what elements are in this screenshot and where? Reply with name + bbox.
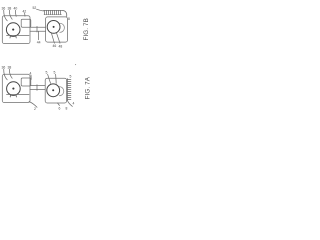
ref numeral 52 bbox=[33, 6, 44, 11]
left housing box 7B bbox=[2, 16, 30, 44]
roller circle 7A-right bbox=[47, 84, 60, 97]
svg-text:FIG. 7B: FIG. 7B bbox=[83, 18, 90, 40]
ribbed belt band (vertical) bbox=[67, 79, 72, 107]
stray speck bbox=[75, 64, 76, 65]
svg-text:4: 4 bbox=[73, 102, 75, 106]
right housing box 7B bbox=[46, 17, 68, 42]
svg-text:44: 44 bbox=[37, 41, 41, 45]
roller circle 7A-left bbox=[7, 82, 21, 96]
svg-text:8: 8 bbox=[68, 17, 70, 21]
shaft upper line bbox=[30, 26, 46, 28]
svg-text:48: 48 bbox=[59, 45, 63, 49]
ref numeral 50a bbox=[46, 71, 51, 84]
under-box leader swoosh bbox=[29, 102, 37, 112]
ref numeral 52a bbox=[54, 71, 57, 84]
shaft lower line 7A bbox=[30, 89, 45, 91]
roller legs bbox=[10, 36, 16, 38]
ref numeral at hook end bbox=[73, 102, 75, 106]
svg-text:5: 5 bbox=[70, 75, 72, 79]
roller axle dot bbox=[12, 29, 14, 31]
ref numeral 38a bbox=[8, 66, 13, 79]
ref numeral 36a bbox=[2, 66, 8, 80]
roller legs 7A bbox=[10, 95, 16, 97]
roller circle 7B-left bbox=[6, 23, 20, 37]
ref numeral 36 bbox=[2, 7, 8, 21]
svg-text:5: 5 bbox=[54, 71, 56, 75]
ribbed belt band (horizontal) bbox=[44, 10, 67, 16]
shaft lower line bbox=[30, 30, 46, 32]
inner compartment 7B bbox=[21, 19, 31, 27]
secondary roller arc bbox=[60, 23, 65, 32]
shaft coupler tick 7A bbox=[36, 85, 38, 91]
left housing box 7A bbox=[2, 74, 30, 102]
leader to numeral 44 bbox=[37, 31, 41, 44]
leader to numeral 46 bbox=[52, 33, 57, 48]
leader to numeral below box 7A bbox=[58, 103, 61, 111]
svg-text:FIG. 7A: FIG. 7A bbox=[84, 76, 91, 99]
inner compartment 7A bbox=[21, 78, 31, 86]
roller circle 7B-right bbox=[47, 21, 60, 34]
leader to numeral 48 bbox=[57, 33, 63, 48]
secondary roller arc 7A bbox=[59, 87, 64, 96]
shaft upper line 7A bbox=[30, 85, 45, 87]
numeral below hook bbox=[66, 107, 68, 111]
svg-text:36: 36 bbox=[2, 66, 6, 70]
ref numeral 8 at band end bbox=[68, 17, 70, 21]
ref numeral 40 bbox=[14, 7, 18, 17]
ref numeral 38 bbox=[8, 7, 13, 20]
svg-text:52: 52 bbox=[33, 6, 37, 10]
roller axle dot bbox=[52, 89, 54, 91]
svg-text:5: 5 bbox=[46, 71, 48, 75]
chord line under roller bbox=[7, 94, 30, 96]
svg-text:36: 36 bbox=[2, 7, 6, 11]
roller axle dot bbox=[53, 26, 55, 28]
chord line under roller bbox=[7, 34, 30, 36]
shaft coupler tick bbox=[36, 26, 38, 32]
svg-text:6: 6 bbox=[59, 107, 61, 111]
svg-text:2: 2 bbox=[34, 107, 36, 111]
ref numeral 54 bbox=[70, 75, 72, 79]
roller axle dot bbox=[12, 88, 14, 90]
ref numeral 42 bbox=[23, 10, 27, 17]
ref numeral 42a bbox=[30, 72, 32, 80]
svg-text:8: 8 bbox=[66, 107, 68, 111]
svg-text:46: 46 bbox=[53, 44, 57, 48]
right housing box 7A bbox=[45, 78, 66, 103]
